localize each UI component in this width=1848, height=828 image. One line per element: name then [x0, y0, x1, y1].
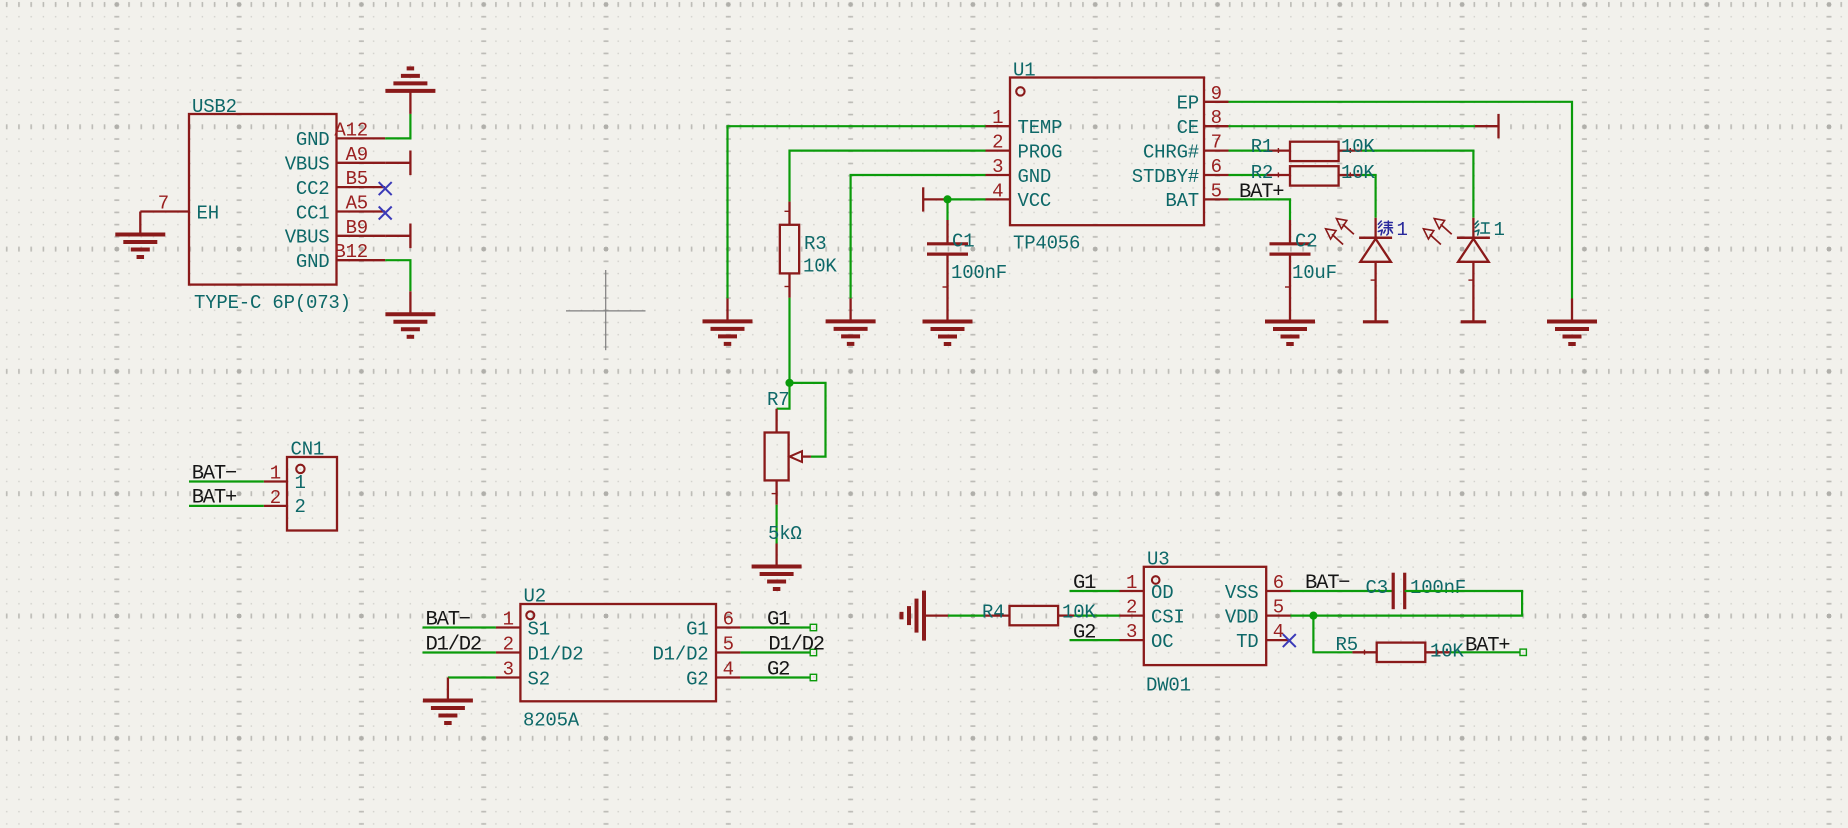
- svg-text:1: 1: [1397, 219, 1408, 241]
- svg-text:CC1: CC1: [296, 202, 330, 224]
- svg-text:4: 4: [992, 180, 1003, 202]
- svg-text:4: 4: [723, 659, 734, 681]
- svg-text:1: 1: [295, 472, 306, 494]
- svg-text:G1: G1: [686, 618, 708, 640]
- svg-text:U3: U3: [1147, 549, 1169, 571]
- svg-text:G2: G2: [686, 668, 708, 690]
- svg-text:A9: A9: [346, 144, 368, 166]
- svg-text:5: 5: [1273, 597, 1284, 619]
- svg-text:VSS: VSS: [1225, 582, 1259, 604]
- svg-text:10uF: 10uF: [1292, 262, 1337, 284]
- svg-text:USB2: USB2: [192, 96, 237, 118]
- svg-text:TD: TD: [1236, 631, 1258, 653]
- svg-text:CSI: CSI: [1151, 606, 1185, 628]
- svg-text:6: 6: [723, 609, 734, 631]
- svg-text:1: 1: [270, 463, 281, 485]
- svg-text:1: 1: [1126, 572, 1137, 594]
- svg-text:3: 3: [992, 156, 1003, 178]
- svg-text:CE: CE: [1177, 117, 1199, 139]
- svg-text:OC: OC: [1151, 631, 1173, 653]
- svg-text:2: 2: [992, 132, 1003, 154]
- svg-text:TEMP: TEMP: [1018, 117, 1063, 139]
- svg-text:3: 3: [1126, 621, 1137, 643]
- svg-text:1: 1: [992, 107, 1003, 129]
- svg-text:G1: G1: [767, 609, 790, 632]
- svg-text:2: 2: [1126, 597, 1137, 619]
- svg-text:OD: OD: [1151, 582, 1173, 604]
- svg-text:R3: R3: [804, 233, 826, 255]
- svg-text:7: 7: [158, 193, 169, 215]
- svg-text:5kΩ: 5kΩ: [768, 523, 802, 545]
- svg-text:8: 8: [1211, 107, 1222, 129]
- svg-text:VBUS: VBUS: [285, 227, 330, 249]
- svg-text:D1/D2: D1/D2: [426, 634, 482, 657]
- svg-text:GND: GND: [296, 251, 330, 273]
- svg-text:3: 3: [503, 659, 514, 681]
- svg-text:GND: GND: [1018, 166, 1052, 188]
- svg-text:6: 6: [1273, 572, 1284, 594]
- svg-text:8205A: 8205A: [523, 710, 580, 732]
- svg-text:10K: 10K: [803, 256, 837, 278]
- svg-text:C1: C1: [952, 231, 974, 253]
- svg-text:B12: B12: [334, 241, 368, 263]
- svg-text:STDBY#: STDBY#: [1132, 166, 1199, 188]
- svg-text:100nF: 100nF: [951, 262, 1007, 284]
- svg-text:10K: 10K: [1341, 162, 1375, 184]
- svg-text:C3: C3: [1366, 577, 1388, 599]
- svg-text:1: 1: [1494, 219, 1505, 241]
- svg-text:BAT+: BAT+: [1239, 181, 1284, 204]
- svg-text:D1/D2: D1/D2: [652, 643, 708, 665]
- svg-text:S2: S2: [528, 668, 550, 690]
- svg-text:2: 2: [295, 496, 306, 518]
- svg-text:G1: G1: [1073, 572, 1096, 595]
- svg-text:CHRG#: CHRG#: [1143, 141, 1199, 163]
- svg-text:BAT+: BAT+: [1465, 635, 1510, 658]
- svg-text:S1: S1: [528, 618, 550, 640]
- svg-text:VDD: VDD: [1225, 606, 1259, 628]
- svg-text:DW01: DW01: [1146, 675, 1191, 697]
- svg-text:GND: GND: [296, 129, 330, 151]
- svg-text:D1/D2: D1/D2: [528, 643, 584, 665]
- svg-text:7: 7: [1211, 132, 1222, 154]
- svg-text:TP4056: TP4056: [1013, 233, 1080, 255]
- svg-text:10K: 10K: [1430, 641, 1464, 663]
- svg-text:10K: 10K: [1062, 602, 1096, 624]
- svg-text:BAT: BAT: [1165, 190, 1199, 212]
- svg-text:100nF: 100nF: [1410, 577, 1466, 599]
- svg-text:CN1: CN1: [291, 438, 325, 460]
- svg-text:1: 1: [503, 609, 514, 631]
- svg-text:5: 5: [1211, 180, 1222, 202]
- svg-text:PROG: PROG: [1018, 141, 1063, 163]
- svg-text:10K: 10K: [1341, 136, 1375, 158]
- svg-text:9: 9: [1211, 83, 1222, 105]
- svg-text:R4: R4: [982, 602, 1004, 624]
- svg-text:B9: B9: [346, 217, 368, 239]
- svg-text:6: 6: [1211, 156, 1222, 178]
- svg-text:C2: C2: [1295, 231, 1317, 253]
- svg-text:EP: EP: [1177, 93, 1199, 115]
- svg-text:R5: R5: [1336, 634, 1358, 656]
- svg-text:BAT−: BAT−: [1305, 572, 1350, 595]
- svg-text:BAT−: BAT−: [426, 609, 471, 632]
- svg-text:5: 5: [723, 634, 734, 656]
- svg-text:G2: G2: [767, 659, 789, 682]
- svg-text:2: 2: [503, 634, 514, 656]
- svg-text:B5: B5: [346, 168, 368, 190]
- svg-text:U1: U1: [1013, 60, 1035, 82]
- svg-text:A12: A12: [334, 119, 368, 141]
- svg-text:BAT−: BAT−: [192, 462, 237, 485]
- svg-text:U2: U2: [524, 586, 546, 608]
- svg-text:BAT+: BAT+: [192, 487, 237, 510]
- svg-text:CC2: CC2: [296, 178, 330, 200]
- svg-text:VCC: VCC: [1018, 190, 1052, 212]
- svg-text:A5: A5: [346, 193, 368, 215]
- svg-text:TYPE-C 6P(073): TYPE-C 6P(073): [194, 292, 351, 314]
- svg-text:4: 4: [1273, 621, 1284, 643]
- svg-text:R1: R1: [1251, 136, 1273, 158]
- svg-text:D1/D2: D1/D2: [768, 634, 824, 657]
- svg-text:EH: EH: [197, 202, 219, 224]
- svg-text:G2: G2: [1073, 621, 1095, 644]
- svg-text:VBUS: VBUS: [285, 154, 330, 176]
- svg-text:2: 2: [270, 487, 281, 509]
- svg-text:R7: R7: [767, 389, 789, 411]
